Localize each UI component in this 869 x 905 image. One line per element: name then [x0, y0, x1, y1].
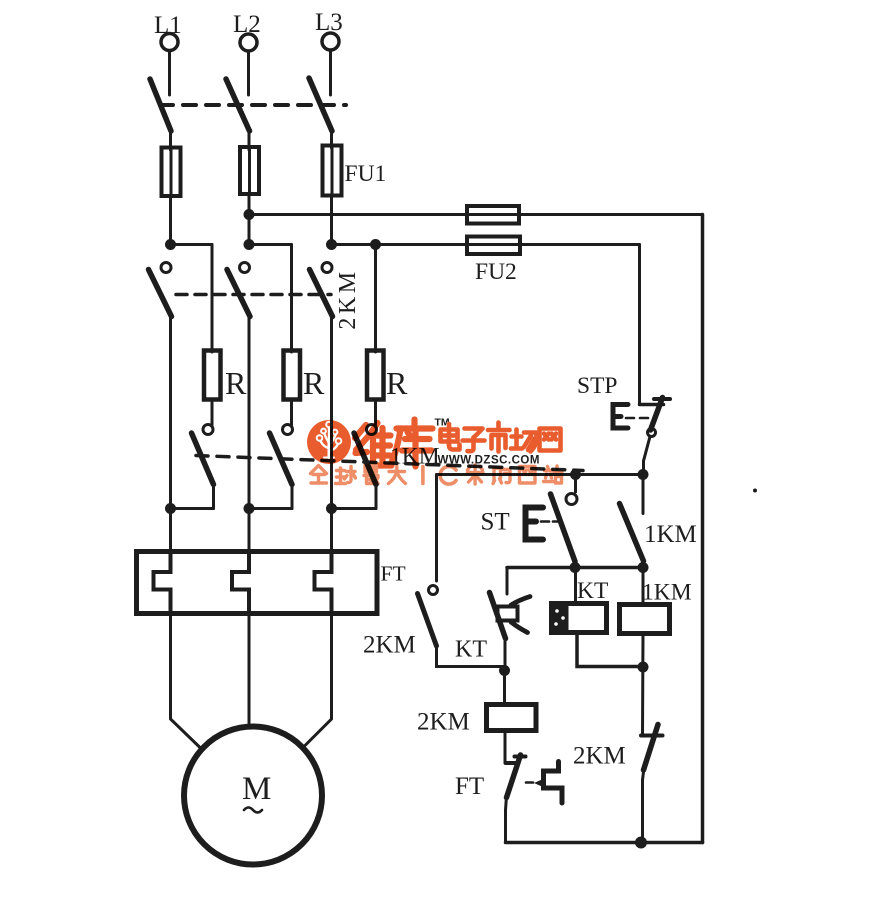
- wire bottom junction B3: [332, 507, 377, 510]
- slogan char wang2: [520, 467, 536, 484]
- svg-text:R: R: [225, 365, 247, 401]
- time relay KT delayed contact upper whisker: [511, 597, 530, 606]
- contactor 2KM aux blade: [418, 594, 437, 647]
- node dot ST bottom: [570, 562, 581, 573]
- wire phase3 column mid: [330, 314, 333, 509]
- contactor 1KM main contact pole1 hinge: [203, 425, 213, 435]
- svg-text:STP: STP: [577, 373, 618, 399]
- wire KT contact to node D: [504, 637, 507, 671]
- contactor 1KM main contact pole2 hinge: [283, 425, 293, 435]
- wire 1KM pole2 lower lead: [291, 483, 294, 509]
- contactor 2KM NO contact blade: [644, 725, 659, 771]
- time relay KT coil fill block: [552, 604, 569, 633]
- slogan char C: [440, 466, 456, 484]
- slogan char qiu: [336, 468, 346, 484]
- wire STP to node C: [644, 437, 651, 475]
- wire R2 column upper: [290, 245, 293, 353]
- pushbutton ST blade: [551, 494, 576, 562]
- knife switch QS linkage dashed line: [160, 103, 346, 107]
- wire blade3 to fuse FU1c: [330, 128, 333, 148]
- fuse FU1 pole3 element wire: [331, 147, 334, 195]
- slogan char quan: [311, 466, 327, 474]
- node dot phase2 control tap: [244, 209, 255, 220]
- svg-text:R: R: [303, 365, 325, 401]
- slogan char gou: [494, 468, 501, 481]
- wire fuse1 to node A1: [169, 196, 172, 246]
- svg-text:FU1: FU1: [345, 161, 387, 187]
- wire 2KM coil bottom: [504, 731, 507, 764]
- svg-text:KT: KT: [577, 578, 608, 604]
- contactor 2KM main linkage dashed line: [176, 293, 331, 297]
- pushbutton STP actuator E: [613, 405, 628, 429]
- svg-text:FT: FT: [455, 773, 484, 800]
- wire B3 to thermal relay: [330, 509, 333, 554]
- wire R3 lower lead: [374, 399, 377, 425]
- contactor 1KM linkage dashed line: [196, 456, 583, 471]
- wire L3 to knife switch: [329, 51, 332, 96]
- thermal contact FT dashed link: [526, 781, 533, 784]
- time relay KT delayed contact delay box: [498, 607, 518, 621]
- fuse FU1 pole2 body: [240, 147, 259, 194]
- contactor 1KM aux blade: [620, 504, 644, 562]
- node dot D: [499, 665, 510, 676]
- contactor 1KM main contact pole1 blade: [192, 433, 214, 485]
- contactor 2KM main contact pole3 blade: [310, 270, 333, 317]
- wire phase1 column mid: [169, 314, 172, 509]
- contactor 2KM aux contact lead: [435, 475, 438, 582]
- node dot A3: [326, 239, 337, 250]
- motor M circle: [184, 727, 322, 865]
- contactor 2KM main contact pole2 blade: [227, 270, 250, 317]
- watermark char shi: [488, 423, 510, 452]
- fuse FU2b body: [467, 237, 520, 255]
- fuse FU1 pole2 element wire: [248, 149, 251, 194]
- contactor 2KM main contact pole3 hinge: [322, 263, 332, 273]
- wire control bus y474: [437, 473, 644, 476]
- pushbutton ST actuator dashed link: [541, 520, 560, 523]
- wire 1KM pole1 lower lead: [212, 483, 215, 509]
- wire R3 column upper: [374, 245, 377, 353]
- contactor 2KM main contact pole1 hinge: [161, 263, 171, 273]
- wire 1KM coil bottom to 2KM contact: [641, 634, 645, 736]
- resistor R2 body: [284, 351, 301, 400]
- svg-text:2KM: 2KM: [417, 709, 470, 736]
- fuse FU1 pole1 body: [162, 148, 181, 197]
- watermark logo disc: [307, 420, 351, 464]
- contactor 1KM aux fixed lead: [642, 475, 645, 514]
- wire KT coil bottom: [577, 633, 643, 667]
- watermark dzsc.com: [307, 417, 562, 485]
- wire blade1 to fuse FU1a: [169, 128, 172, 150]
- wire KT coil feed: [574, 568, 577, 605]
- watermark char wang: [540, 429, 561, 451]
- contactor 1KM main contact pole2 blade: [270, 433, 293, 485]
- thermal contact FT release arrow tip: [534, 779, 543, 787]
- wire FT to motor lead3: [302, 614, 332, 749]
- thermal contact FT fixed bar: [506, 761, 517, 765]
- contactor 1KM main contact pole3 blade: [354, 433, 376, 485]
- time relay KT coil body: [552, 604, 607, 633]
- node dot B1: [165, 503, 176, 514]
- node dot coils junction: [638, 662, 649, 673]
- fuse FU2a body: [467, 206, 519, 224]
- svg-text:KT: KT: [455, 637, 487, 663]
- svg-text:2KM: 2KM: [573, 743, 626, 770]
- wire blade2 to fuse FU1b: [248, 128, 251, 150]
- watermark char dian: [441, 424, 460, 450]
- pushbutton ST fixed lead: [574, 475, 577, 493]
- pushbutton STP blade: [651, 398, 663, 431]
- wire fuse2 to node A2: [248, 194, 251, 246]
- FT heater element pole1: [154, 553, 171, 614]
- knife switch QS blade pole 2: [226, 79, 250, 131]
- time relay KT coil fill specks: [554, 609, 565, 626]
- FT heater element pole3: [315, 553, 332, 614]
- contactor 2KM coil body: [487, 705, 537, 731]
- wire stub A1 to R1 column: [171, 243, 213, 246]
- resistor R1 body: [204, 351, 221, 400]
- contactor 2KM main contact pole1 blade: [149, 270, 172, 317]
- wire L1 to knife switch: [168, 51, 171, 95]
- wire 2KM NO contact to bottom bus: [643, 768, 645, 843]
- thermal relay FT box: [137, 552, 378, 614]
- wire L2 to knife switch: [247, 52, 250, 96]
- svg-text:M: M: [242, 771, 271, 807]
- pushbutton STP blade top serif: [654, 397, 670, 401]
- watermark logo circuit tree: [317, 422, 342, 458]
- wire FT to motor lead2: [248, 614, 251, 726]
- motor tilde symbol: [244, 808, 262, 813]
- node dot bottom bus: [635, 837, 647, 849]
- wire B1 to thermal relay: [169, 509, 172, 554]
- watermark char wei: [355, 423, 392, 466]
- watermark slogan row: [311, 465, 563, 484]
- contactor 2KM NO contact fixed bar: [641, 734, 663, 738]
- node dot B3: [326, 503, 337, 514]
- fuse FU1 pole3 body: [323, 146, 342, 196]
- watermark char zi: [463, 429, 485, 452]
- pushbutton ST actuator E: [526, 508, 544, 540]
- right rail vertical wire: [701, 215, 705, 843]
- wire R1 column upper: [211, 245, 214, 353]
- svg-text:ST: ST: [481, 509, 510, 536]
- svg-text:1KM: 1KM: [642, 580, 692, 606]
- contactor 2KM main contact pole2 hinge: [240, 263, 250, 273]
- contactor 2KM aux hinge circle: [429, 586, 438, 595]
- svg-text:FU2: FU2: [475, 259, 517, 285]
- fuse FU1 pole1 element wire: [170, 150, 173, 196]
- wire 2KM aux to node D: [437, 645, 505, 667]
- stray ink dot: [753, 489, 757, 493]
- wire control feed 1 from phase2 to right rail: [249, 213, 703, 216]
- wire R1 lower lead: [211, 399, 214, 425]
- wire node D to 2KM coil: [503, 671, 506, 706]
- pushbutton STP hinge circle: [648, 429, 656, 437]
- wire fuse3 to node A3: [330, 195, 333, 246]
- thermal contact FT blade top serif: [515, 755, 526, 759]
- wire bottom junction B2: [249, 507, 292, 510]
- node dot B2: [244, 503, 255, 514]
- node dot C (STP bottom): [638, 469, 649, 480]
- terminal L3 circle: [322, 33, 339, 50]
- watermark char ku: [391, 420, 433, 467]
- node dot A1: [165, 239, 176, 250]
- svg-text:FT: FT: [381, 562, 406, 586]
- node dot ST tap: [570, 469, 581, 480]
- time relay KT delayed contact lower whisker: [511, 622, 528, 633]
- slogan char I: [421, 467, 425, 484]
- svg-text:R: R: [386, 365, 408, 401]
- knife switch QS blade pole 1: [150, 79, 171, 131]
- wire FT contact to bottom bus: [506, 796, 507, 843]
- time relay KT delayed contact blade: [490, 593, 506, 639]
- pushbutton ST hinge circle: [566, 494, 577, 505]
- resistor R3 body: [367, 351, 384, 400]
- pushbutton STP actuator dashed link: [626, 417, 648, 420]
- FT heater element pole2: [232, 553, 249, 614]
- terminal L2 circle: [240, 34, 257, 51]
- knife switch QS blade pole 3: [309, 78, 332, 131]
- STP rail vertical wire: [638, 245, 641, 405]
- wire corner down to KT contact: [506, 568, 509, 595]
- slogan char cai: [468, 465, 483, 470]
- svg-text:2KM: 2KM: [335, 268, 361, 329]
- wire stub A2 to R2 column: [249, 243, 292, 246]
- wire 1KM coil feed: [642, 568, 645, 606]
- svg-text:WWW.DZSC.COM: WWW.DZSC.COM: [438, 455, 540, 467]
- svg-text:1KM: 1KM: [644, 521, 697, 548]
- wire R2 lower lead: [290, 399, 293, 425]
- wire B2 to thermal relay: [248, 509, 251, 554]
- wire bottom bus: [506, 841, 703, 845]
- node dot R3 tap: [370, 239, 381, 250]
- slogan char da: [389, 470, 405, 473]
- watermark char chang: [511, 430, 537, 452]
- wire phase2 column mid: [248, 314, 251, 509]
- wire bottom junction B1: [171, 507, 214, 510]
- thermal contact FT blade: [507, 755, 521, 798]
- node dot A2: [244, 239, 255, 250]
- wire 1KM pole3 lower lead: [375, 483, 378, 509]
- slogan char zui: [365, 466, 377, 473]
- wire control feed 2 from phase3 to STP rail: [332, 243, 640, 246]
- pushbutton STP fixed contact bar: [640, 403, 664, 407]
- wire FT to motor lead1: [171, 614, 201, 748]
- wire control bus y567: [507, 566, 643, 570]
- terminal L1 circle: [161, 34, 178, 51]
- thermal contact FT release flag: [544, 762, 563, 804]
- contactor 1KM main contact pole3 hinge: [367, 425, 377, 435]
- slogan char zhan: [548, 467, 549, 470]
- svg-text:2KM: 2KM: [363, 632, 416, 659]
- node dot 1KM aux bottom: [638, 562, 649, 573]
- contactor 1KM coil body: [620, 605, 670, 634]
